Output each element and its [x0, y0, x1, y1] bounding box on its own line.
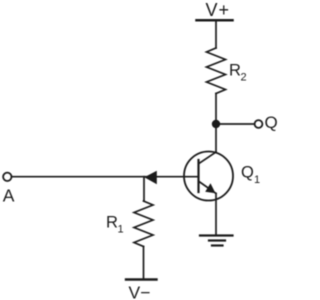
svg-text:V+: V+ — [206, 0, 231, 20]
transistor Q1 circle — [184, 152, 233, 201]
svg-text:R: R — [106, 214, 118, 232]
wire R2 to node — [215, 94, 217, 125]
svg-text:Q: Q — [241, 164, 254, 182]
svg-text:A: A — [3, 186, 15, 206]
node junction dot — [212, 120, 220, 128]
V- supply bar — [126, 278, 157, 280]
wire emitter to ground — [215, 194, 217, 236]
svg-text:V−: V− — [129, 283, 151, 300]
wire base node to R1 — [143, 177, 145, 201]
svg-text:1: 1 — [118, 224, 124, 236]
signal arrow on base wire — [144, 171, 157, 185]
wire V+ to R2 — [215, 20, 217, 48]
terminal A open circle — [3, 173, 11, 181]
ground — [200, 236, 233, 246]
wire node to collector — [215, 124, 217, 152]
transistor Q1 base bar — [197, 160, 199, 192]
transistor Q1 collector stroke — [199, 152, 216, 164]
svg-text:2: 2 — [241, 72, 247, 84]
resistor R1 — [134, 201, 153, 247]
svg-text:Q: Q — [265, 113, 278, 132]
transistor Q1 emitter arrow — [205, 183, 215, 193]
wire A to base — [12, 176, 199, 178]
wire R1 to V- bar — [143, 247, 145, 280]
V+ supply bar — [197, 19, 233, 22]
transistor Q1 emitter stroke — [199, 182, 216, 194]
wire node to Q terminal — [216, 123, 254, 125]
svg-text:1: 1 — [254, 174, 260, 186]
svg-text:R: R — [229, 62, 241, 80]
resistor R2 — [207, 48, 226, 94]
terminal Q open circle — [255, 120, 263, 128]
